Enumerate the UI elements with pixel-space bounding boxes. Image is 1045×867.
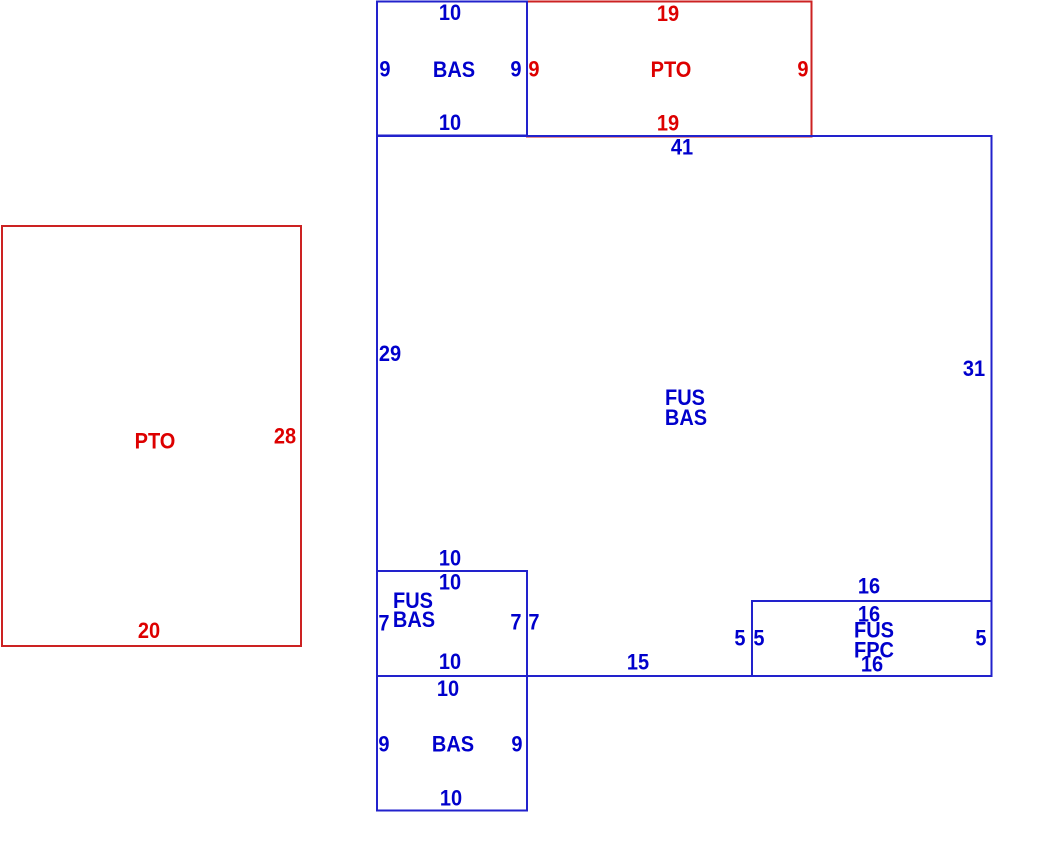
svg-text:7: 7 (528, 611, 539, 635)
svg-text:7: 7 (378, 612, 389, 636)
label BAS top (433, 58, 475, 82)
svg-text:28: 28 (274, 425, 296, 449)
svg-text:15: 15 (627, 651, 649, 675)
dim 9 right of BAS top (510, 58, 521, 82)
svg-text:9: 9 (379, 58, 390, 82)
label FUS line of FUS BAS main (665, 386, 705, 410)
dim 5 right inside FUS FPC (975, 627, 986, 651)
area FUS BAS main polygon (377, 136, 992, 676)
dim 28 right of PTO left (274, 425, 296, 449)
svg-text:9: 9 (378, 733, 389, 757)
svg-text:20: 20 (138, 619, 160, 643)
dim 16 top inside FUS FPC (858, 603, 880, 627)
dim 15 bottom of FUS BAS main (627, 651, 649, 675)
label BAS line of FUS BAS main (665, 406, 707, 430)
dim 9 left of PTO top (528, 58, 539, 82)
dim 7 right of small FUS BAS outside (528, 611, 539, 635)
svg-text:10: 10 (439, 547, 461, 571)
dim 16 above FUS FPC (858, 575, 880, 599)
area PTO top-right rectangle (527, 2, 812, 137)
svg-text:BAS: BAS (393, 608, 435, 632)
svg-text:41: 41 (671, 136, 693, 160)
svg-text:10: 10 (439, 111, 461, 135)
dim 9 right of BAS bottom (511, 733, 522, 757)
svg-text:31: 31 (963, 357, 985, 381)
dim 19 bottom of PTO top (657, 112, 679, 136)
svg-text:19: 19 (657, 2, 679, 26)
svg-text:16: 16 (861, 653, 883, 677)
svg-text:19: 19 (657, 112, 679, 136)
svg-text:10: 10 (439, 1, 461, 25)
dim 9 left of BAS bottom (378, 733, 389, 757)
label FPC line of FUS FPC (854, 639, 894, 663)
svg-text:9: 9 (528, 58, 539, 82)
svg-text:29: 29 (379, 342, 401, 366)
label BAS line of small FUS BAS (393, 608, 435, 632)
dim 10 bottom of BAS bottom (440, 787, 462, 811)
area BAS top rectangle (377, 2, 527, 136)
svg-text:9: 9 (510, 58, 521, 82)
svg-text:9: 9 (797, 58, 808, 82)
area BAS bottom rectangle (377, 676, 527, 811)
label BAS bottom (432, 733, 474, 757)
svg-text:10: 10 (439, 571, 461, 595)
dim 20 bottom of PTO left (138, 619, 160, 643)
dim 16 bottom inside FUS FPC (861, 653, 883, 677)
dim 9 left of BAS top (379, 58, 390, 82)
label FUS line of FUS FPC (854, 619, 894, 643)
area FUS FPC rectangle (752, 601, 992, 676)
svg-text:5: 5 (753, 627, 764, 651)
svg-text:PTO: PTO (651, 58, 692, 82)
label PTO top (651, 58, 692, 82)
dim 31 right of FUS BAS main (963, 357, 985, 381)
svg-text:10: 10 (440, 787, 462, 811)
svg-text:BAS: BAS (665, 406, 707, 430)
dim 10 top of BAS bottom (437, 677, 459, 701)
svg-text:BAS: BAS (432, 733, 474, 757)
dim 5 left inside FUS FPC (753, 627, 764, 651)
dim 7 right inside small FUS BAS (510, 611, 521, 635)
dim 9 right of PTO top (797, 58, 808, 82)
svg-text:5: 5 (975, 627, 986, 651)
dim 10 bottom of small FUS BAS (439, 650, 461, 674)
dim 10 bottom of BAS top (439, 111, 461, 135)
svg-text:7: 7 (510, 611, 521, 635)
svg-text:16: 16 (858, 575, 880, 599)
dim 19 top of PTO top (657, 2, 679, 26)
svg-text:5: 5 (734, 627, 745, 651)
svg-text:PTO: PTO (135, 430, 176, 454)
dim 5 left outside FUS FPC (734, 627, 745, 651)
label PTO left (135, 430, 176, 454)
dim 10 above small FUS BAS (439, 547, 461, 571)
dim 29 left of FUS BAS main (379, 342, 401, 366)
svg-text:10: 10 (437, 677, 459, 701)
area PTO left rectangle (2, 226, 301, 646)
area FUS BAS small rectangle (377, 571, 527, 676)
dim 10 top inside small FUS BAS (439, 571, 461, 595)
dim 7 left of small FUS BAS (378, 612, 389, 636)
dim 10 top of BAS top (439, 1, 461, 25)
dim 41 top of FUS BAS main (671, 136, 693, 160)
label FUS line of small FUS BAS (393, 589, 433, 613)
svg-text:10: 10 (439, 650, 461, 674)
svg-text:9: 9 (511, 733, 522, 757)
svg-text:BAS: BAS (433, 58, 475, 82)
